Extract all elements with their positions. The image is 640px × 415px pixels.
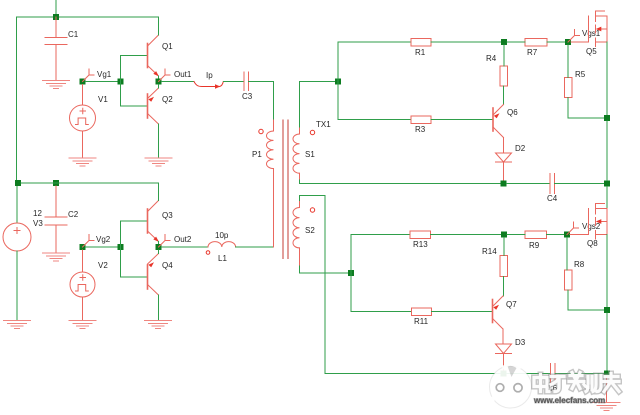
resistor R5: [565, 78, 573, 98]
svg-text:P1: P1: [252, 150, 262, 159]
wire R9 to gate node 2: [547, 234, 565, 236]
svg-text:S2: S2: [305, 226, 315, 235]
capacitor C3: [244, 72, 249, 91]
wire R8 to right rail: [568, 290, 604, 310]
wire S2 top path: [300, 196, 326, 374]
wire node B down to R11 rail: [351, 273, 412, 312]
wire C3 to transformer: [249, 82, 274, 121]
ground under Q2: [145, 158, 172, 166]
svg-text:Q1: Q1: [162, 42, 173, 51]
diode D2: [496, 138, 512, 181]
ground under C2: [43, 253, 70, 261]
wire D3 junction to C6: [507, 373, 551, 375]
node base rail junction (Q1/Q2): [118, 79, 124, 85]
svg-text:www.elecfans.com: www.elecfans.com: [533, 396, 605, 405]
svg-text:C1: C1: [68, 30, 79, 39]
transformer core: [283, 120, 288, 259]
wire Q1 collector: [158, 17, 160, 35]
voltage source V1: [70, 85, 96, 159]
svg-text:Q7: Q7: [506, 300, 517, 309]
svg-text:R9: R9: [529, 241, 540, 250]
arrow Q7: [493, 305, 499, 310]
wire Q4 base: [121, 276, 148, 278]
wire gate lead Q8: [570, 234, 589, 236]
wire bottom rail left of D3: [325, 373, 501, 375]
capacitor C4: [550, 174, 555, 194]
node Vg1 junction: [80, 79, 86, 85]
node right rail junction 4: [604, 371, 610, 377]
svg-text:Vgs1: Vgs1: [582, 29, 601, 38]
phase dot L1: [206, 251, 210, 255]
node D3 junction: [501, 371, 507, 377]
resistor R13: [410, 231, 431, 239]
wire L1 to transformer: [236, 246, 274, 248]
svg-text:Vg1: Vg1: [97, 70, 112, 79]
resistor R11: [412, 308, 432, 316]
wire C6 to right rail: [555, 373, 604, 375]
wire Out1 to Ip: [162, 81, 195, 83]
wire R3 to Q6 base: [431, 119, 493, 121]
svg-text:D2: D2: [515, 144, 526, 153]
ground bottom right: [593, 403, 620, 411]
svg-text:Q5: Q5: [586, 47, 597, 56]
wire Q4 collector down: [158, 295, 160, 320]
node base rail junction (Q3/Q4): [118, 244, 124, 250]
node D2 junction: [501, 181, 507, 187]
wire Q8 source down: [606, 235, 608, 308]
node gate junction (Vgs2): [564, 232, 570, 238]
transistor Q4 (PNP): [148, 254, 159, 296]
svg-text:R4: R4: [486, 54, 497, 63]
ground under V1: [69, 158, 96, 166]
phase dot S2: [310, 208, 314, 212]
wire Q1 emitter to Out1: [158, 76, 160, 79]
capacitor C1: [45, 17, 67, 80]
wire top rail horizontal: [17, 16, 159, 18]
watermark text 电子发烧友: [534, 373, 619, 392]
wire left rail lower to V3: [16, 186, 18, 223]
wire S1 top to node A: [300, 82, 339, 128]
arrow Q8 body: [596, 219, 602, 224]
resistor R4: [500, 66, 508, 86]
svg-text:Q4: Q4: [162, 261, 173, 270]
wire right rail J3 to J4: [606, 313, 608, 371]
node R1/R7/R4 junction: [501, 39, 507, 45]
node right rail junction 3: [604, 307, 610, 313]
svg-text:V2: V2: [98, 261, 108, 270]
svg-text:Q3: Q3: [162, 211, 173, 220]
svg-text:R5: R5: [575, 70, 586, 79]
svg-text:Q8: Q8: [587, 239, 598, 248]
node B junction (S2 bottom): [348, 270, 354, 276]
svg-text:R8: R8: [574, 260, 585, 269]
wire R11 to Q7 base: [432, 311, 493, 313]
svg-text:10p: 10p: [215, 231, 229, 240]
wire Q2 collector down: [158, 124, 160, 158]
node mid-left rail junction 1: [15, 180, 21, 186]
phase dot S1: [310, 130, 314, 134]
node Out1 junction: [156, 79, 162, 85]
wire C4 to right rail: [555, 183, 605, 185]
ground under V3: [4, 321, 31, 329]
wire junction to R9: [507, 234, 525, 236]
wire R4 to Q6: [503, 86, 505, 105]
wire right rail to ground: [606, 377, 608, 403]
wire D2 junction to C4: [507, 183, 551, 185]
diode D3: [496, 329, 512, 371]
probe flag Vg1: [83, 69, 95, 82]
transformer secondary S1 winding: [293, 127, 300, 180]
transformer secondary S2 winding: [293, 201, 300, 267]
wire gate lead Q5: [571, 41, 589, 43]
node right rail junction 1: [604, 115, 610, 121]
wire R1 to junction: [431, 41, 504, 43]
svg-text:Vgs2: Vgs2: [582, 222, 601, 231]
wire base rail vertical Q1-Q2: [120, 56, 122, 107]
transformer TX1 primary P1 winding: [267, 120, 274, 247]
svg-text:L1: L1: [218, 254, 227, 263]
resistor R3: [411, 116, 431, 124]
node right rail junction 2: [604, 181, 610, 187]
resistor R7: [525, 39, 547, 47]
svg-text:R7: R7: [527, 48, 538, 57]
node R13/R9/R14 junction: [501, 232, 507, 238]
wire Q2 base: [121, 105, 148, 107]
watermark logo disc: [488, 364, 532, 408]
capacitor C6: [551, 364, 556, 384]
wire Q3 base: [121, 220, 148, 222]
arrow Q1 emitter: [153, 71, 159, 76]
arrow Q4 emitter: [148, 262, 154, 267]
svg-text:R1: R1: [415, 48, 426, 57]
resistor R8: [565, 270, 573, 290]
svg-text:R13: R13: [413, 240, 428, 249]
node gate junction (Vgs1): [565, 39, 571, 45]
svg-text:C3: C3: [242, 92, 253, 101]
node Vg2 junction: [80, 244, 86, 250]
wire R14 to Q7: [503, 277, 505, 297]
svg-text:R14: R14: [482, 247, 497, 256]
voltage source V2: [70, 250, 95, 320]
wire junction to R14: [503, 238, 505, 256]
probe flag Vgs1: [568, 30, 580, 43]
svg-text:Q2: Q2: [162, 95, 173, 104]
wire junction to R4: [503, 45, 505, 66]
svg-text:C4: C4: [547, 194, 558, 203]
wire node B up to R13 rail: [351, 235, 410, 274]
transistor Q1 (NPN): [148, 35, 159, 76]
wire R13 to junction: [431, 234, 505, 236]
wire Q2 emitter from Out1: [158, 85, 160, 89]
svg-text:D3: D3: [515, 338, 526, 347]
wire gate node to R5: [567, 45, 569, 78]
svg-text:R11: R11: [414, 317, 429, 326]
ground under Q4: [145, 321, 172, 329]
resistor R1: [411, 39, 431, 47]
svg-text:R3: R3: [415, 125, 426, 134]
resistor R9: [525, 231, 547, 239]
wire mid-left rail: [21, 182, 159, 184]
wire base rail vertical Q3-Q4: [120, 221, 122, 277]
capacitor C2: [45, 186, 67, 253]
mosfet Q8: [589, 204, 608, 240]
svg-text:12: 12: [33, 209, 42, 218]
transistor Q3 (NPN): [148, 201, 159, 242]
node mid-left rail junction 2 (C2 top): [53, 180, 59, 186]
voltage source V3: [3, 223, 31, 251]
wire R7 to gate node: [547, 41, 565, 43]
wire junction to R7: [507, 41, 525, 43]
wire Q3 collector: [158, 183, 160, 201]
wire Q4 emitter from Out2: [158, 250, 160, 254]
svg-text:Q6: Q6: [507, 108, 518, 117]
probe flag Vgs2: [567, 222, 579, 235]
wire S2 bottom to node B: [300, 266, 352, 273]
current probe arrow Ip: [194, 82, 223, 87]
transistor Q7 (PNP): [493, 296, 504, 329]
wire S1 bottom rail: [300, 180, 551, 184]
svg-text:Ip: Ip: [206, 71, 213, 80]
phase dot P1: [259, 129, 263, 133]
wire node A up to R1 rail: [338, 42, 411, 82]
svg-text:Out1: Out1: [174, 70, 192, 79]
svg-text:V3: V3: [33, 219, 43, 228]
wire Vg1 to base rail: [86, 81, 121, 83]
svg-text:C2: C2: [68, 210, 79, 219]
wire Vg2 to base rail: [86, 246, 121, 248]
wire R5 to right rail: [568, 98, 604, 119]
node C1 top junction: [53, 14, 59, 20]
ground under C1: [43, 81, 70, 89]
wire Q1 base: [121, 55, 148, 57]
arrow Q2 emitter: [148, 97, 154, 102]
arrow Q3 emitter: [153, 237, 159, 242]
wire node A down to R3 rail: [338, 82, 411, 120]
probe flag Out2: [159, 235, 171, 248]
mosfet Q5: [589, 11, 608, 47]
wire gate node 2 to R8: [566, 238, 568, 271]
wire V3 to ground: [16, 251, 18, 320]
transistor Q6 (PNP): [493, 105, 504, 138]
wire stub to top edge: [55, 0, 57, 17]
svg-text:V1: V1: [98, 95, 108, 104]
node Out2 junction: [156, 244, 162, 250]
wire Q5 source down right rail: [606, 42, 608, 115]
probe flag Vg2: [83, 235, 95, 248]
probe flag Out1: [159, 69, 171, 82]
wire right rail between J1 J2: [606, 121, 608, 181]
svg-text:Out2: Out2: [174, 235, 192, 244]
arrow Q5 body: [596, 27, 602, 32]
arrow Q6: [494, 113, 500, 118]
svg-text:Vg2: Vg2: [96, 235, 111, 244]
inductor L1: [208, 242, 236, 247]
svg-text:TX1: TX1: [316, 120, 331, 129]
ground under V2: [69, 321, 96, 329]
wire right rail J2 to Q8: [606, 187, 608, 210]
wire Q3 emitter to Out2: [158, 242, 160, 245]
transistor Q2 (PNP): [148, 88, 159, 124]
svg-text:S1: S1: [305, 150, 315, 159]
wire left rail vertical: [16, 17, 18, 183]
resistor R14: [500, 256, 508, 277]
node A junction (S1 top): [335, 79, 341, 85]
wire Ip to C3: [223, 81, 244, 83]
wire Out2 to L1: [162, 246, 209, 248]
